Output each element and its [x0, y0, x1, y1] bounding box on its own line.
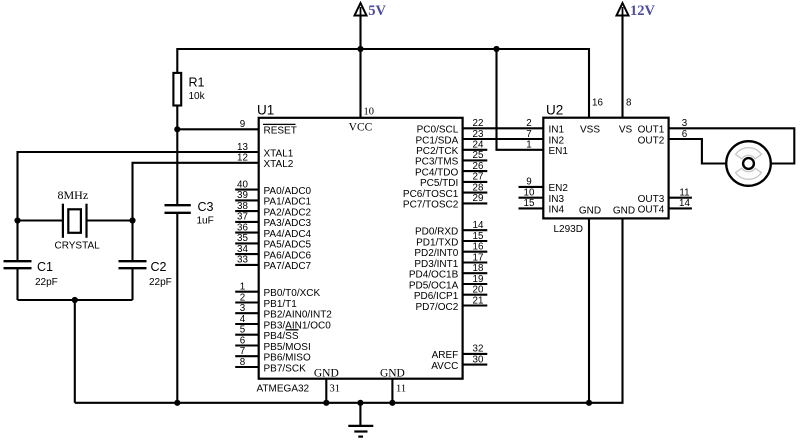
- svg-text:40: 40: [237, 179, 248, 190]
- U1 pin 30 AVCC: [431, 354, 487, 372]
- U1 pin 14 PD0/RXD: [415, 220, 487, 238]
- svg-text:PD3/INT1: PD3/INT1: [414, 259, 458, 270]
- svg-text:21: 21: [473, 295, 484, 306]
- svg-text:ATMEGA32: ATMEGA32: [257, 383, 310, 394]
- svg-text:EN1: EN1: [549, 146, 569, 157]
- wire U1 GND pin 11: [391, 379, 393, 403]
- junction U2 GND/rail: [586, 400, 592, 406]
- U2 pin 16 VSS: [580, 98, 603, 136]
- svg-text:XTAL1: XTAL1: [264, 148, 294, 159]
- U2 pin 6 OUT2: [638, 129, 688, 147]
- wire C3 to ground rail: [176, 213, 178, 403]
- svg-text:PD4/OC1B: PD4/OC1B: [409, 270, 459, 281]
- svg-text:20: 20: [473, 285, 484, 296]
- svg-text:1: 1: [240, 282, 245, 293]
- power 12V: [617, 3, 656, 118]
- U1 pin 21 PD7/OC2: [416, 295, 488, 313]
- svg-text:PA0/ADC0: PA0/ADC0: [264, 186, 312, 197]
- svg-text:10k: 10k: [189, 91, 206, 102]
- svg-text:PD7/OC2: PD7/OC2: [416, 302, 459, 313]
- svg-text:PD2/INT0: PD2/INT0: [414, 248, 458, 259]
- wire OUT1 to motor: [669, 128, 795, 163]
- svg-text:GND: GND: [579, 205, 601, 216]
- svg-text:PD5/OC1A: PD5/OC1A: [409, 280, 459, 291]
- svg-text:23: 23: [473, 129, 484, 140]
- U1 pin 4 PB3/AIN1/OC0: [235, 314, 331, 332]
- crystal 8MHz: [18, 188, 133, 252]
- svg-text:PC4/TDO: PC4/TDO: [415, 167, 459, 178]
- junction 5V/EN1: [493, 46, 499, 52]
- svg-text:33: 33: [237, 255, 248, 266]
- wire EN1 pin 1: [497, 49, 544, 150]
- svg-text:5: 5: [240, 325, 246, 336]
- U1 pin 5 PB4/SS: [235, 325, 299, 343]
- svg-text:5V: 5V: [368, 3, 386, 19]
- U1 pin 34 PA6/ADC6: [235, 244, 311, 262]
- U1 pin 35 PA5/ADC5: [235, 233, 311, 251]
- U1 pin 24 PC2/TCK: [416, 140, 487, 158]
- U1 pin 15 PD1/TXD: [416, 231, 487, 249]
- svg-text:36: 36: [237, 222, 248, 233]
- svg-text:14: 14: [473, 220, 484, 231]
- svg-text:8: 8: [626, 98, 632, 109]
- U2 pin 2 IN1: [526, 118, 564, 136]
- U1 pin 37 PA3/ADC3: [235, 212, 311, 230]
- svg-text:PB0/T0/XCK: PB0/T0/XCK: [264, 288, 321, 299]
- U1 pin 2 PB1/T1: [235, 292, 297, 310]
- svg-text:IN2: IN2: [549, 135, 565, 146]
- svg-text:PA3/ADC3: PA3/ADC3: [264, 218, 312, 229]
- svg-text:2: 2: [240, 292, 245, 303]
- svg-text:12: 12: [237, 153, 248, 164]
- svg-text:PD6/ICP1: PD6/ICP1: [414, 291, 459, 302]
- U1 pin 25 PC3/TMS: [415, 150, 487, 168]
- svg-text:VSS: VSS: [580, 125, 600, 136]
- U1 pin 27 PC5/TDI: [420, 172, 487, 190]
- svg-text:28: 28: [473, 182, 484, 193]
- svg-text:39: 39: [237, 190, 248, 201]
- svg-text:XTAL2: XTAL2: [264, 159, 294, 170]
- svg-text:4: 4: [240, 314, 246, 325]
- svg-text:PB2/AIN0/INT2: PB2/AIN0/INT2: [264, 310, 333, 321]
- U2 pin 10 IN3: [519, 187, 565, 205]
- op IC U1 ATMEGA32 body: [257, 103, 463, 395]
- svg-text:31: 31: [330, 383, 341, 394]
- U1 pin 18 PD4/OC1B: [409, 263, 487, 281]
- svg-text:L293D: L293D: [554, 224, 583, 235]
- U1 pin 33 PA7/ADC7: [235, 255, 311, 273]
- U1 pin 20 PD6/ICP1: [414, 285, 487, 303]
- svg-text:PA1/ADC1: PA1/ADC1: [264, 197, 312, 208]
- svg-text:11: 11: [679, 187, 689, 198]
- U1 pin 8 PB7/SCK: [235, 357, 306, 375]
- svg-text:6: 6: [240, 335, 246, 346]
- U1 pin 38 PA2/ADC2: [235, 201, 311, 219]
- svg-text:R1: R1: [189, 76, 205, 90]
- svg-text:EN2: EN2: [549, 183, 569, 194]
- svg-text:29: 29: [473, 193, 484, 204]
- svg-text:IN3: IN3: [549, 194, 565, 205]
- svg-text:IN4: IN4: [549, 205, 565, 216]
- junction 5V/VCC: [357, 46, 363, 52]
- junction C3/ground rail: [174, 400, 180, 406]
- motor M1: [726, 141, 771, 186]
- svg-text:PB1/T1: PB1/T1: [264, 299, 298, 310]
- svg-text:8: 8: [240, 357, 246, 368]
- svg-text:PC0/SCL: PC0/SCL: [417, 125, 459, 136]
- svg-text:25: 25: [473, 150, 484, 161]
- junction GND31: [323, 400, 329, 406]
- U2 pin 9 EN2: [519, 177, 569, 195]
- svg-text:IN1: IN1: [549, 125, 565, 136]
- svg-text:12V: 12V: [630, 3, 656, 19]
- svg-text:35: 35: [237, 233, 248, 244]
- svg-text:PC3/TMS: PC3/TMS: [415, 157, 459, 168]
- svg-text:32: 32: [473, 344, 484, 355]
- svg-text:19: 19: [473, 274, 484, 285]
- U1 GND pin 11 label: [380, 368, 406, 395]
- svg-text:PC5/TDI: PC5/TDI: [420, 178, 458, 189]
- svg-text:30: 30: [473, 354, 484, 365]
- svg-text:PB5/MOSI: PB5/MOSI: [264, 342, 311, 353]
- wire XTAL1: [18, 152, 259, 221]
- svg-text:7: 7: [240, 346, 245, 357]
- svg-text:OUT2: OUT2: [638, 135, 665, 146]
- svg-text:U2: U2: [546, 103, 563, 118]
- svg-text:22pF: 22pF: [35, 277, 58, 288]
- svg-text:OUT3: OUT3: [638, 194, 665, 205]
- U1 pin 6 PB5/MOSI: [235, 335, 311, 353]
- svg-text:GND: GND: [380, 368, 405, 380]
- svg-text:OUT1: OUT1: [638, 125, 665, 136]
- svg-text:VCC: VCC: [349, 122, 373, 134]
- U2 pin 1 EN1: [526, 140, 568, 158]
- U1 pin 7 PB6/MISO: [235, 346, 311, 364]
- svg-text:PA5/ADC5: PA5/ADC5: [264, 240, 312, 251]
- wire ground rail: [75, 218, 623, 402]
- U1 pin 3 PB2/AIN0/INT2: [235, 303, 332, 321]
- svg-text:C3: C3: [198, 200, 214, 214]
- svg-text:2: 2: [526, 118, 531, 129]
- junction C1-C2 drop: [72, 297, 78, 303]
- svg-text:C2: C2: [151, 260, 167, 274]
- svg-text:8MHz: 8MHz: [58, 188, 89, 202]
- junction crystal/C1: [14, 217, 20, 223]
- svg-text:PA6/ADC6: PA6/ADC6: [264, 250, 312, 261]
- svg-text:PD1/TXD: PD1/TXD: [416, 237, 458, 248]
- wire C1-C2 link: [18, 299, 133, 301]
- svg-text:PB7/SCK: PB7/SCK: [264, 363, 307, 374]
- svg-text:AREF: AREF: [432, 350, 459, 361]
- U1 pin 17 PD3/INT1: [414, 252, 487, 270]
- svg-text:16: 16: [592, 98, 603, 109]
- U1 pin 28 PC6/TOSC1: [403, 182, 487, 200]
- svg-text:GND: GND: [613, 205, 635, 216]
- svg-text:13: 13: [237, 142, 248, 153]
- wire RESET: [177, 128, 258, 130]
- wire OUT2 to motor: [669, 139, 727, 164]
- svg-text:PC2/TCK: PC2/TCK: [416, 146, 459, 157]
- wire link to ground rail: [74, 300, 76, 403]
- U1 pin 9 RESET: [240, 119, 297, 137]
- svg-text:PC6/TOSC1: PC6/TOSC1: [403, 189, 459, 200]
- svg-text:10: 10: [524, 187, 535, 198]
- svg-text:PA4/ADC4: PA4/ADC4: [264, 229, 312, 240]
- capacitor C3: [165, 200, 214, 227]
- wire U2 GND drop: [588, 218, 590, 402]
- wire 5V rail: [177, 49, 589, 118]
- U2 pin 3 OUT1: [638, 118, 688, 136]
- svg-text:3: 3: [240, 303, 246, 314]
- IC U2 L293D body: [543, 103, 668, 236]
- svg-text:26: 26: [473, 161, 484, 172]
- U1 pin 13 XTAL1: [237, 142, 294, 160]
- U1 pin 32 AREF: [432, 344, 488, 362]
- power 5V: [355, 3, 387, 49]
- svg-text:RESET: RESET: [264, 126, 297, 137]
- svg-text:15: 15: [473, 231, 484, 242]
- svg-text:37: 37: [237, 212, 248, 223]
- U2 GND bottom labels: [579, 205, 635, 216]
- svg-text:18: 18: [473, 263, 484, 274]
- U1 pin 36 PA4/ADC4: [235, 222, 311, 240]
- wire U1 GND pin 31: [325, 379, 327, 403]
- svg-text:17: 17: [473, 252, 484, 263]
- svg-text:PA7/ADC7: PA7/ADC7: [264, 261, 312, 272]
- svg-text:PC1/SDA: PC1/SDA: [416, 135, 459, 146]
- svg-text:10: 10: [364, 107, 375, 118]
- svg-text:1: 1: [526, 140, 531, 151]
- svg-text:PA2/ADC2: PA2/ADC2: [264, 207, 312, 218]
- svg-text:27: 27: [473, 172, 484, 183]
- capacitor C2: [119, 221, 172, 301]
- U1 pin 39 PA1/ADC1: [235, 190, 311, 208]
- svg-text:PB6/MISO: PB6/MISO: [264, 353, 311, 364]
- U1 pin 19 PD5/OC1A: [409, 274, 487, 292]
- U1 pin 12 XTAL2: [237, 153, 294, 171]
- svg-text:34: 34: [237, 244, 248, 255]
- U1 pin 23 PC1/SDA: [416, 129, 544, 147]
- U1 pin 22 PC0/SCL: [417, 118, 544, 136]
- svg-text:C1: C1: [37, 260, 53, 274]
- svg-text:22: 22: [473, 118, 484, 129]
- svg-text:GND: GND: [314, 368, 339, 380]
- junction GND11: [389, 400, 395, 406]
- svg-text:22pF: 22pF: [149, 277, 172, 288]
- U2 pin 7 IN2: [526, 129, 564, 147]
- junction ground symbol: [357, 400, 363, 406]
- svg-text:11: 11: [396, 383, 406, 394]
- U1 pin 26 PC4/TDO: [415, 161, 487, 179]
- U1 GND pin 31 label: [314, 368, 340, 395]
- U1 pin 29 PC7/TOSC2: [403, 193, 487, 211]
- wire XTAL2: [133, 163, 259, 221]
- svg-text:9: 9: [240, 119, 245, 130]
- svg-text:U1: U1: [257, 103, 274, 118]
- U1 pin 40 PA0/ADC0: [235, 179, 311, 197]
- svg-text:AVCC: AVCC: [431, 361, 458, 372]
- U2 pin 14 OUT4: [638, 198, 692, 216]
- svg-text:OUT4: OUT4: [638, 205, 665, 216]
- svg-text:VS: VS: [619, 125, 633, 136]
- U2 pin 8 VS: [619, 98, 633, 136]
- wire R1 to C3: [176, 106, 178, 206]
- svg-text:CRYSTAL: CRYSTAL: [55, 240, 101, 251]
- svg-text:PC7/TOSC2: PC7/TOSC2: [403, 200, 459, 211]
- ground: [348, 403, 373, 437]
- U2 pin 15 IN4: [519, 198, 565, 216]
- capacitor C1: [4, 221, 58, 301]
- U1 pin 16 PD2/INT0: [414, 242, 487, 260]
- U1 pin 1 PB0/T0/XCK: [235, 282, 320, 300]
- junction crystal/C2: [129, 217, 135, 223]
- svg-text:15: 15: [524, 198, 535, 209]
- svg-text:7: 7: [526, 129, 531, 140]
- U2 pin 11 OUT3: [638, 187, 692, 205]
- svg-text:16: 16: [473, 242, 484, 253]
- junction RESET node: [174, 126, 180, 132]
- svg-text:38: 38: [237, 201, 248, 212]
- svg-text:24: 24: [473, 140, 484, 151]
- svg-text:1uF: 1uF: [197, 216, 214, 227]
- svg-text:PD0/RXD: PD0/RXD: [415, 227, 458, 238]
- wire VCC pin 10: [359, 49, 361, 118]
- U1 VCC pin 10 label: [349, 107, 374, 134]
- svg-text:9: 9: [526, 177, 531, 188]
- svg-text:14: 14: [679, 198, 690, 209]
- resistor R1: [173, 73, 205, 106]
- svg-text:PB4/SS: PB4/SS: [264, 331, 299, 342]
